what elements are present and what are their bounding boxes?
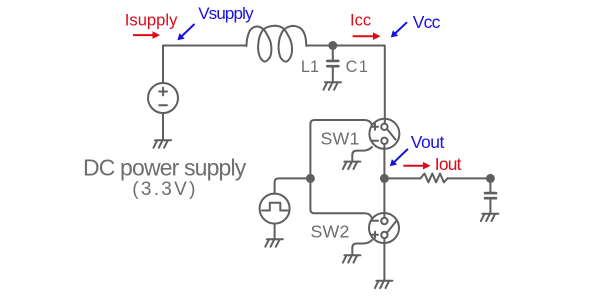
svg-text:C1: C1	[346, 58, 370, 76]
svg-text:Vcc: Vcc	[413, 12, 441, 32]
svg-text:Vout: Vout	[411, 132, 445, 152]
svg-text:DC power supply: DC power supply	[83, 155, 247, 181]
svg-text:Iout: Iout	[435, 154, 462, 174]
svg-text:Icc: Icc	[350, 12, 371, 30]
svg-text:(3.3V): (3.3V)	[132, 179, 198, 200]
svg-text:Isupply: Isupply	[125, 10, 178, 29]
svg-text:L1: L1	[301, 58, 319, 76]
svg-text:Vsupply: Vsupply	[198, 4, 254, 23]
svg-text:SW2: SW2	[311, 222, 350, 242]
svg-text:SW1: SW1	[321, 129, 360, 149]
